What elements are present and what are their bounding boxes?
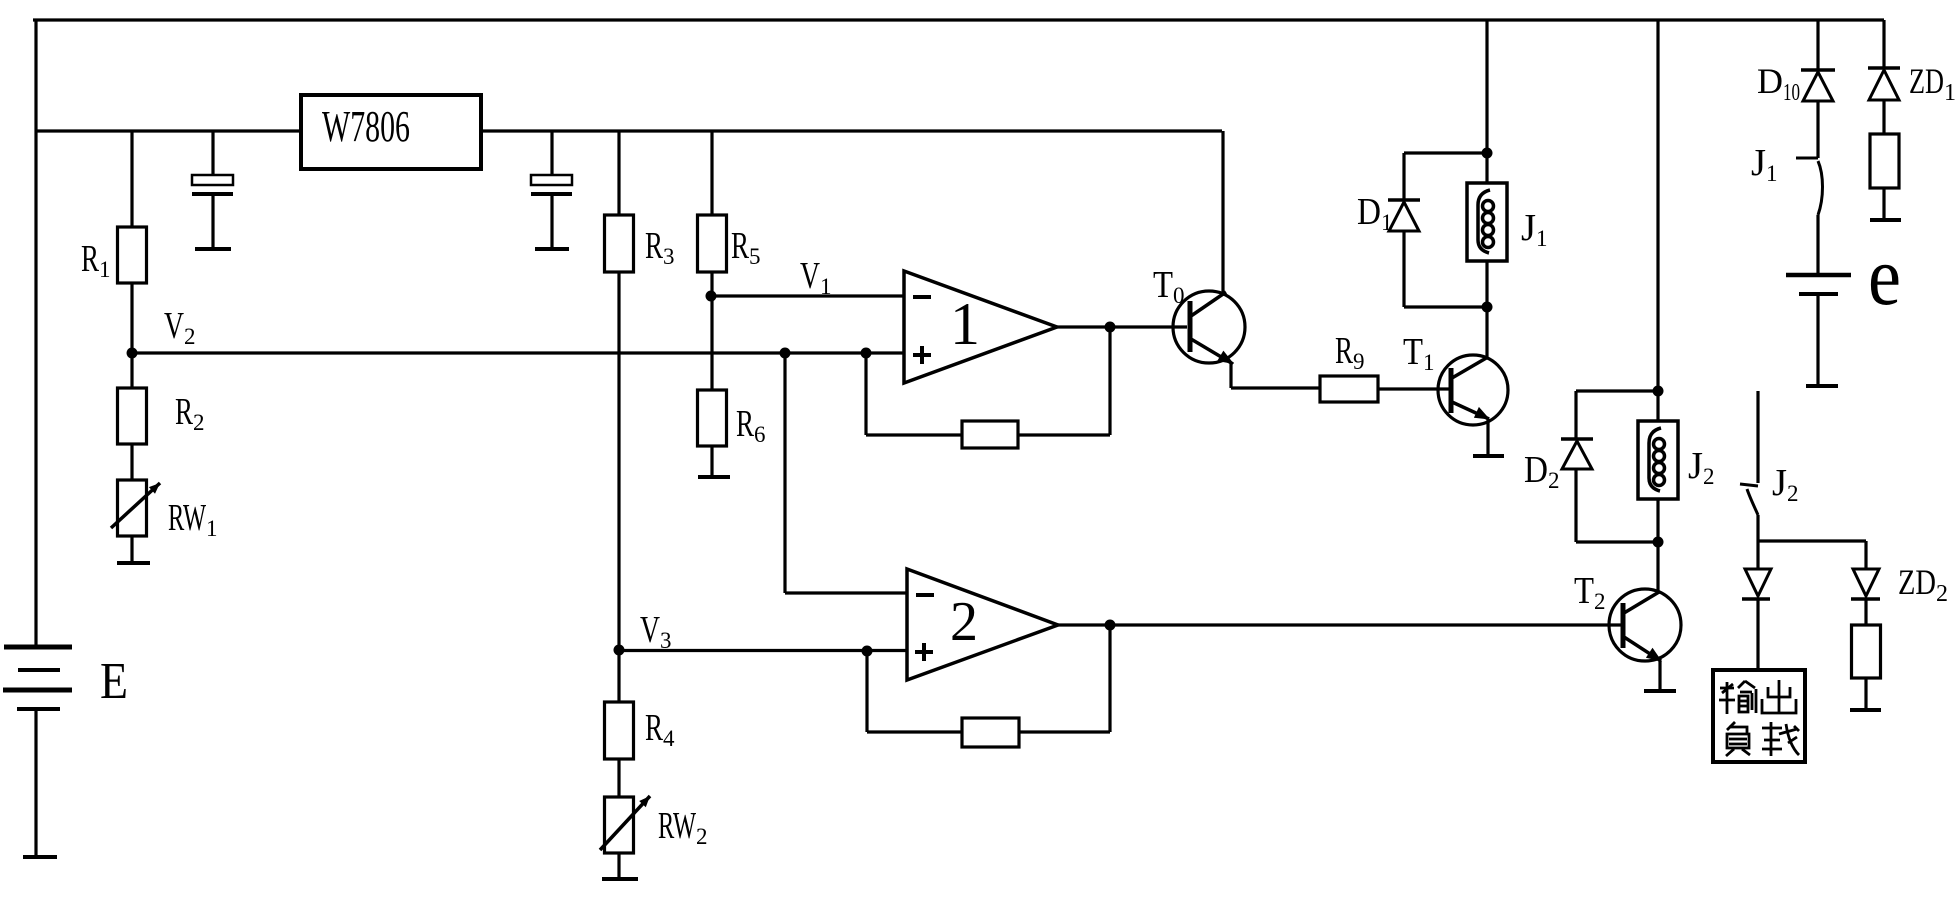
terminal: R10 end bar — [1870, 218, 1901, 222]
wire: D2 top branch — [1576, 391, 1658, 439]
svg-text:2: 2 — [950, 591, 978, 653]
svg-text:E: E — [100, 653, 128, 710]
svg-text:D1: D1 — [1357, 191, 1393, 235]
wire: R9 to T1 base — [1378, 387, 1449, 390]
wire: T1 emitter lead — [1486, 419, 1489, 454]
label: Chinese char chu (out) — [1762, 680, 1796, 713]
svg-text:V2: V2 — [164, 305, 196, 349]
wire: D1 top branch — [1404, 153, 1487, 200]
label: Chinese char zai (carry) — [1762, 722, 1799, 756]
wire: op1 feedback left leg — [866, 353, 962, 435]
wire: ZD2 top lead — [1864, 541, 1867, 569]
diode D2 — [1561, 439, 1593, 469]
label: Chinese char fu (load) — [1726, 722, 1750, 756]
terminal: R11 end bar — [1850, 708, 1881, 712]
wire: op2 feedback right leg — [1019, 625, 1110, 732]
load box (output load) — [1713, 670, 1805, 762]
wire: R3 top lead — [617, 131, 620, 215]
resistor R6 — [698, 390, 727, 446]
resistor Rf2 (op2 feedback) — [962, 718, 1019, 747]
wire: D2 bottom branch — [1576, 469, 1658, 542]
wire: R2 to RW1 — [130, 444, 133, 480]
svg-text:R6: R6 — [736, 403, 766, 447]
wire: ZD1 to R10 — [1882, 100, 1885, 134]
resistor R3 — [605, 215, 634, 272]
wire: V2 to R2 — [130, 353, 133, 388]
wire: R1 to V2 node — [130, 283, 133, 353]
wire: op2 output to T2 base — [1058, 623, 1621, 626]
regulator U1 W7806 — [301, 95, 481, 169]
wire: V1 line to op-amp 1 inverting input — [711, 294, 904, 297]
wire: R5 top lead — [710, 131, 713, 215]
wire: V3 to R4 — [617, 650, 620, 702]
wire: D10 to switch J1 — [1816, 101, 1819, 158]
relay coil J1 — [1467, 183, 1507, 261]
wire: R6 bottom lead — [710, 446, 713, 475]
node V1 — [706, 291, 717, 302]
switch J1 contact — [1796, 158, 1823, 215]
terminal: C1 end bar — [195, 247, 231, 251]
wire: switch J1 to battery e — [1816, 215, 1819, 275]
wire: RW1 bottom lead — [130, 536, 133, 562]
relay coil J2 — [1638, 421, 1678, 499]
wire: R11 bottom lead — [1864, 678, 1867, 708]
resistor R4 — [605, 702, 634, 759]
wire: RW2 bottom lead — [617, 853, 620, 877]
potentiometer RW2 — [600, 796, 650, 853]
resistor R2 — [118, 388, 147, 444]
svg-text:R9: R9 — [1335, 330, 1365, 374]
svg-text:J1: J1 — [1521, 207, 1548, 251]
terminal: battery E end bar — [23, 855, 57, 859]
wire: R3 down to node V3 — [617, 272, 620, 650]
wire: V1 down to R6 (crossover of V2 line) — [710, 296, 713, 390]
wire: +6V rail right of regulator — [481, 129, 1222, 132]
svg-text:V3: V3 — [640, 609, 672, 653]
node: op2 + input junction — [862, 646, 873, 657]
wire: T2 emitter lead — [1658, 661, 1661, 689]
svg-text:T2: T2 — [1574, 570, 1606, 614]
capacitor C2 — [531, 131, 572, 248]
node: op1 + input junction A — [780, 348, 791, 359]
terminal: RW2 end bar — [602, 877, 638, 881]
svg-text:T0: T0 — [1153, 264, 1185, 308]
resistor R11 (under ZD2) — [1852, 625, 1881, 678]
svg-text:D2: D2 — [1524, 449, 1560, 493]
wire: ZD1 column from top rail corner — [1882, 20, 1885, 68]
svg-text:J1: J1 — [1751, 142, 1778, 186]
diode D1 — [1388, 200, 1420, 231]
svg-text:e: e — [1868, 230, 1901, 323]
wire: op1 feedback right leg — [1018, 327, 1110, 435]
capacitor C1 — [192, 131, 233, 248]
svg-text:1: 1 — [950, 291, 980, 357]
transistor T1 — [1438, 355, 1508, 425]
node: J1 bottom junction — [1482, 302, 1493, 313]
svg-text:W7806: W7806 — [322, 102, 410, 151]
resistor R1 — [118, 227, 147, 283]
svg-text:RW2: RW2 — [658, 805, 708, 849]
wire: T1 collector up to relay J1 — [1485, 307, 1488, 357]
wire: V2 line to op-amp 1 non-inverting input — [132, 351, 904, 354]
wire: D1 bottom branch — [1404, 231, 1487, 307]
svg-text:R4: R4 — [645, 707, 675, 751]
node V2 — [127, 348, 138, 359]
svg-text:R3: R3 — [645, 225, 675, 269]
zener diode ZD1 — [1868, 68, 1900, 100]
wire: J2 junction down to T2 collector — [1656, 542, 1659, 592]
svg-text:J2: J2 — [1688, 445, 1715, 489]
svg-text:J2: J2 — [1772, 462, 1799, 506]
diode D10 — [1801, 70, 1835, 101]
wire: left border down to battery E — [34, 20, 37, 647]
label: Chinese char shu (transport) — [1719, 681, 1756, 714]
svg-text:ZD1: ZD1 — [1909, 61, 1955, 106]
node: J1 top junction — [1482, 148, 1493, 159]
wire: R5 to V1 node — [710, 272, 713, 296]
battery e — [1786, 275, 1851, 385]
svg-text:R2: R2 — [175, 391, 205, 435]
op-amp U2 comparator 2 — [907, 569, 1058, 680]
wire: op1 output — [1057, 325, 1187, 328]
node V3 — [614, 645, 625, 656]
terminal: RW1 end bar — [117, 561, 150, 565]
wire: +6V rail left of regulator — [36, 129, 301, 132]
wire: V3 line to op-amp 2 non-inverting input — [619, 649, 907, 652]
diode D3 (output) — [1742, 569, 1771, 599]
ground: T1 emitter bar — [1473, 454, 1504, 458]
node: op1 output junction — [1105, 322, 1116, 333]
wire: ZD2 to R11 — [1864, 599, 1867, 625]
op-amp U1 comparator 1 — [904, 271, 1057, 383]
svg-text:V1: V1 — [800, 255, 832, 299]
wire: T0 collector to +6V rail — [1221, 131, 1224, 293]
wire: output diode top lead — [1756, 541, 1759, 569]
transistor T2 — [1609, 589, 1681, 662]
potentiometer RW1 — [111, 480, 160, 536]
svg-text:RW1: RW1 — [168, 497, 218, 541]
terminal: R6 end bar — [698, 475, 730, 479]
resistor R9 — [1320, 376, 1378, 402]
resistor R5 — [698, 215, 727, 272]
node: op1 feedback tap — [861, 348, 872, 359]
switch J2 contact — [1740, 391, 1758, 541]
wire: T0 emitter to R9 — [1231, 363, 1320, 388]
wire: op2 feedback left leg — [867, 651, 962, 732]
transistor T0 — [1173, 291, 1245, 364]
wire: D10 column from top rail — [1816, 20, 1819, 70]
wire: J2 coil bottom lead — [1656, 499, 1659, 542]
wire: J1 coil bottom lead — [1485, 261, 1488, 307]
node: op2 output junction — [1105, 620, 1116, 631]
svg-text:R5: R5 — [731, 225, 761, 269]
wire: junction A down to op-amp 2 inverting input — [785, 353, 907, 593]
wire: R10 bottom lead — [1882, 188, 1885, 218]
ground: T2 emitter bar — [1644, 689, 1676, 693]
svg-text:T1: T1 — [1403, 331, 1435, 375]
wire: output diode to load — [1756, 599, 1759, 670]
terminal: C2 end bar — [535, 247, 569, 251]
wire: relay J1 column from top rail — [1485, 20, 1488, 183]
wire: J2 column from top rail — [1656, 20, 1659, 421]
wire: R1 top lead — [130, 131, 133, 227]
svg-text:ZD2: ZD2 — [1898, 562, 1948, 607]
resistor Rf1 (op1 feedback) — [962, 421, 1018, 448]
wire: R4 to RW2 — [617, 759, 620, 797]
svg-text:R1: R1 — [81, 238, 111, 282]
zener diode ZD2 — [1851, 569, 1880, 599]
battery E — [3, 647, 72, 857]
wire: switch J2 branch to ZD2 — [1758, 539, 1866, 542]
terminal: battery e end bar — [1806, 384, 1838, 388]
wire: top supply rail — [33, 18, 1884, 21]
node: J2 bottom junction — [1653, 537, 1664, 548]
node: J2 top junction — [1653, 386, 1664, 397]
resistor R10 (under ZD1) — [1870, 134, 1899, 188]
svg-text:D10: D10 — [1757, 61, 1800, 106]
